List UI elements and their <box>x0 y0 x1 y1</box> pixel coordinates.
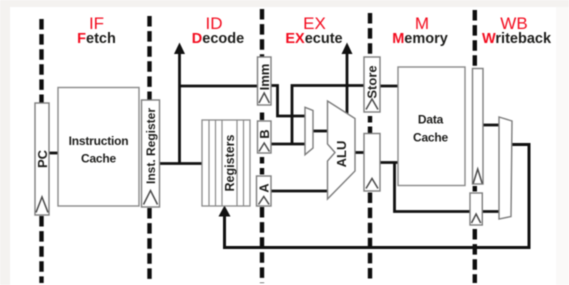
wire writeback feedback to Registers <box>225 145 530 248</box>
wire B register output to mux <box>271 143 305 146</box>
svg-text:Memory: Memory <box>392 31 448 47</box>
svg-text:ALU: ALU <box>334 141 349 168</box>
svg-text:Imm: Imm <box>257 64 272 91</box>
instruction cache <box>58 88 139 207</box>
op-amp style ALU <box>328 101 356 199</box>
arrowhead EX branch arrow <box>342 43 353 55</box>
wire PC to Instruction Cache <box>49 152 58 155</box>
register PC <box>35 103 50 215</box>
stage label IF Fetch <box>77 14 116 47</box>
register Inst. Register <box>142 100 160 207</box>
wire M/WB load latch to WB mux <box>483 124 499 127</box>
svg-text:Decode: Decode <box>192 31 244 47</box>
stage label ID Decode <box>192 14 244 47</box>
wire mux output to ALU <box>313 130 328 133</box>
mux B/Imm select <box>305 107 313 154</box>
left margin strip <box>0 0 10 285</box>
register A <box>256 176 271 206</box>
svg-text:Cache: Cache <box>413 131 449 145</box>
stage label EX EXecute <box>285 14 342 47</box>
right margin strip <box>556 0 569 285</box>
wire B tap to Store register <box>292 86 364 145</box>
wire ALU output to EX/M latch <box>355 151 364 154</box>
wire M/WB bypass latch to WB mux <box>482 210 499 213</box>
svg-text:A: A <box>256 183 271 193</box>
stage boundary dashed line EX/M <box>368 13 372 283</box>
wire Imm register output to mux <box>271 86 305 117</box>
top margin strip <box>0 0 569 7</box>
data cache <box>398 67 465 186</box>
mux WB result select <box>499 117 512 219</box>
svg-text:Store: Store <box>365 65 380 98</box>
arrowhead ID decode arrow <box>174 43 185 55</box>
stage boundary dashed line M/WB <box>473 10 477 283</box>
svg-text:Data: Data <box>418 113 444 127</box>
svg-text:Registers: Registers <box>223 134 237 191</box>
wire A register output to ALU <box>271 190 328 193</box>
register file Registers <box>202 120 250 206</box>
svg-text:EXecute: EXecute <box>285 31 342 47</box>
svg-text:Cache: Cache <box>81 152 117 166</box>
stage label WB Writeback <box>482 14 552 47</box>
wire ALU result bypass to M/WB latch <box>395 163 471 212</box>
svg-text:PC: PC <box>35 149 50 168</box>
register M/WB bypass latch <box>470 193 482 225</box>
wire Store register to Data Cache <box>380 85 398 88</box>
register Store <box>364 57 380 112</box>
svg-text:B: B <box>257 129 272 138</box>
register Imm <box>257 57 272 105</box>
register EX/M latch <box>364 134 380 192</box>
wire immediate field to Imm register <box>180 85 258 88</box>
register B <box>257 121 272 153</box>
wire EX branch riser arrow <box>346 53 349 115</box>
wire Inst. Register output to Registers <box>160 162 203 165</box>
stage label M Memory <box>392 14 448 47</box>
svg-text:Writeback: Writeback <box>482 31 552 47</box>
svg-text:Fetch: Fetch <box>77 31 116 47</box>
stage boundary dashed line IF/ID <box>147 16 151 283</box>
wire EX/M latch to Data Cache <box>380 161 398 164</box>
svg-text:Inst. Register: Inst. Register <box>144 108 158 184</box>
svg-text:Instruction: Instruction <box>69 134 129 148</box>
arrowhead writeback into Registers <box>219 206 231 217</box>
register M/WB load latch <box>473 69 484 185</box>
stage boundary dashed line IF (left) <box>39 19 43 283</box>
stage boundary dashed line ID/EX <box>260 9 264 283</box>
wire ID riser to decode arrow <box>178 53 181 164</box>
